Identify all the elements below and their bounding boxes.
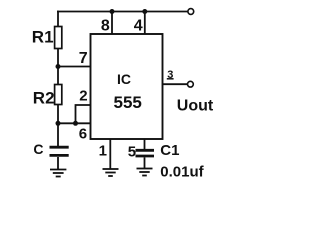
svg-text:Uout: Uout <box>177 97 214 114</box>
svg-text:8: 8 <box>101 18 110 35</box>
node B junction dot <box>56 121 61 126</box>
wire: pin 1 to ground <box>109 139 111 169</box>
svg-text:4: 4 <box>134 18 143 35</box>
wire: pin 6 to node B <box>58 122 91 124</box>
svg-text:R2: R2 <box>33 88 55 107</box>
wire: pin 3 output <box>163 83 188 85</box>
capacitor C1 <box>136 150 155 156</box>
node pin8 junction dot <box>110 9 115 14</box>
wire: pin 4 drop <box>144 12 146 35</box>
terminal: output open circle <box>188 81 194 87</box>
ground (under C) <box>50 170 66 177</box>
svg-text:7: 7 <box>79 50 88 67</box>
svg-text:555: 555 <box>114 93 142 112</box>
resistor R2 <box>55 85 62 105</box>
wire: C to ground <box>57 157 59 170</box>
wire: pin 5 stub <box>144 139 146 150</box>
terminal: Vcc open circle <box>188 9 194 15</box>
op IC 555 box U1 <box>91 34 163 139</box>
wire: pin 7 to node A <box>58 66 91 68</box>
svg-text:2: 2 <box>79 87 87 104</box>
resistor R1 <box>55 27 62 49</box>
svg-text:IC: IC <box>117 71 131 87</box>
svg-text:C1: C1 <box>160 142 179 159</box>
wire: top supply rail <box>57 11 188 13</box>
wire: C1 to ground <box>144 157 146 168</box>
node A junction dot <box>56 64 61 69</box>
svg-text:R1: R1 <box>32 28 54 47</box>
wire: pin 2 jog to node C <box>76 105 91 123</box>
wire: pin 8 drop <box>111 12 113 35</box>
svg-text:C: C <box>33 141 43 157</box>
node C junction dot <box>73 121 78 126</box>
svg-text:1: 1 <box>99 142 107 159</box>
wire: left rail top (to R1) <box>57 11 59 27</box>
svg-text:6: 6 <box>79 125 87 142</box>
ground (pin 5 / C1) <box>137 169 153 176</box>
wire: R2 bottom to node B <box>57 105 59 147</box>
svg-text:5: 5 <box>128 144 136 161</box>
wire: R1 bottom to node A <box>57 49 59 85</box>
pin 3 underline <box>167 78 174 80</box>
svg-text:0.01uf: 0.01uf <box>160 164 204 181</box>
node pin4 junction dot <box>142 9 147 14</box>
ground (pin 1) <box>103 169 119 176</box>
capacitor C <box>50 147 69 155</box>
